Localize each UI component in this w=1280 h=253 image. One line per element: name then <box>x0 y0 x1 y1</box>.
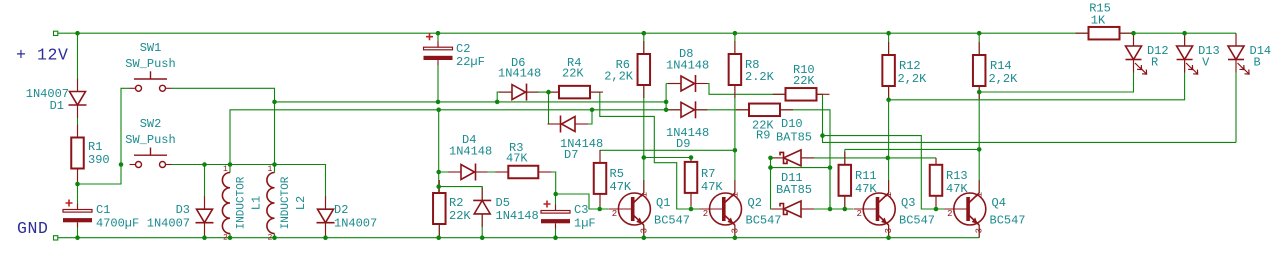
LED D13 <box>1177 33 1198 74</box>
D4 reference label <box>462 133 476 147</box>
C2 value label <box>456 55 485 69</box>
wire L1 to L2 <box>230 164 275 166</box>
D8 value label <box>666 59 709 73</box>
junction D6 R4 D7 <box>546 90 551 95</box>
wire D4 node to R2 <box>438 172 440 193</box>
D2 value label <box>334 217 377 231</box>
junction Q3 emitter GND <box>886 235 891 240</box>
Q2 pin 2 <box>703 209 708 219</box>
wire D10 anode to Q3 collector node <box>801 157 888 159</box>
+12V power label <box>16 46 69 65</box>
svg-text:1µF: 1µF <box>574 217 596 231</box>
wire D3 to L1 <box>205 164 231 166</box>
wire D8 cathode to R10 <box>696 84 786 95</box>
svg-text:4700µF: 4700µF <box>96 217 139 231</box>
wire D6 cathode to R4 <box>526 91 549 93</box>
svg-text:C3: C3 <box>574 203 588 217</box>
R13 value label <box>946 182 968 196</box>
switch SW1 <box>130 71 172 91</box>
wire D5 branch to D5 cathode <box>439 187 483 201</box>
Q4 pin 2 <box>947 209 952 219</box>
wire D13 cathode return <box>889 60 1185 100</box>
svg-text:R5: R5 <box>610 167 624 181</box>
R14 reference label <box>990 59 1012 73</box>
svg-text:SW_Push: SW_Push <box>125 57 175 71</box>
svg-text:GND: GND <box>17 219 49 238</box>
resistor R13 <box>930 158 943 209</box>
svg-text:R12: R12 <box>899 59 921 73</box>
junction R14 top rail <box>977 31 982 36</box>
transistor Q4 <box>944 180 986 238</box>
svg-text:47K: 47K <box>701 180 723 194</box>
svg-text:R1: R1 <box>88 140 102 154</box>
D8 reference label <box>679 47 693 61</box>
C1 reference label <box>96 203 110 217</box>
junction D12 anode rail <box>1131 31 1136 36</box>
wire top rail right of R15 <box>1120 32 1237 34</box>
+12V power stub square <box>54 31 58 35</box>
svg-text:2: 2 <box>223 234 228 243</box>
diode D1 <box>69 79 87 119</box>
Q1 pin 3 <box>639 228 649 233</box>
svg-text:2: 2 <box>612 209 617 219</box>
wire D7 anode to rail2 <box>577 110 593 124</box>
svg-text:R2: R2 <box>449 196 463 210</box>
svg-text:47K: 47K <box>506 152 528 166</box>
capacitor C2 <box>424 41 453 65</box>
svg-text:D10: D10 <box>781 117 803 131</box>
svg-text:1: 1 <box>268 165 273 174</box>
svg-text:1N4148: 1N4148 <box>498 67 541 81</box>
capacitor C2 plus <box>426 33 433 40</box>
junction D13 anode rail <box>1182 31 1187 36</box>
svg-text:R9: R9 <box>756 129 770 143</box>
schottky diode D11 <box>772 201 815 217</box>
Q1 value label <box>654 214 690 228</box>
capacitor C3 <box>541 205 570 229</box>
C3 value label <box>574 217 596 231</box>
junction D4 drop rail2 <box>436 108 441 113</box>
LED D13 reference label <box>1198 44 1220 58</box>
Q4 reference label <box>992 196 1006 210</box>
diode D7 <box>548 116 589 133</box>
D6 reference label <box>511 56 525 70</box>
wire D1 cathode to R1 <box>77 105 79 138</box>
transistor Q1 <box>609 180 651 238</box>
svg-text:1N4007: 1N4007 <box>147 217 190 231</box>
wire D11 anode to Q3 base <box>801 208 853 210</box>
wire R12 to Q3 collector <box>888 86 890 193</box>
junction Q3 collector node <box>886 156 891 161</box>
junction C2 rail1 <box>436 100 441 105</box>
R4 reference label <box>567 56 581 70</box>
Q3 pin 1 <box>884 192 894 197</box>
wire Q1 collector to R7 top <box>644 157 691 159</box>
diode D5 <box>473 187 491 227</box>
D1 value label <box>26 87 69 101</box>
svg-text:BAT85: BAT85 <box>776 131 812 145</box>
diode D6 <box>499 84 539 101</box>
wire R14 to Q4 collector <box>978 86 980 193</box>
svg-text:1: 1 <box>639 192 649 197</box>
svg-text:22K: 22K <box>449 209 471 223</box>
wire C3 to GND <box>555 225 557 237</box>
svg-text:R: R <box>1151 56 1158 70</box>
wire C3 top pin <box>555 194 557 210</box>
Q1 reference label <box>656 196 670 210</box>
switch SW1 value label <box>125 57 175 71</box>
junction D5 branch <box>436 184 441 189</box>
capacitor C1 plus <box>66 200 73 207</box>
D1 reference label <box>50 99 64 113</box>
svg-text:D3: D3 <box>176 203 190 217</box>
svg-text:47K: 47K <box>855 182 877 196</box>
junction D3 top <box>202 162 207 167</box>
svg-text:C2: C2 <box>456 42 470 56</box>
junction D7 rail2 <box>590 108 595 113</box>
R15 value label <box>1091 14 1106 28</box>
junction R13 Q4 base <box>934 207 939 212</box>
inductor L2 pin2 number <box>268 234 273 243</box>
svg-text:V: V <box>1202 56 1210 70</box>
wire R7 bottom pin <box>690 193 692 209</box>
R9 reference label <box>756 129 770 143</box>
resistor R12 <box>882 42 895 99</box>
D7 reference label <box>564 148 578 162</box>
junction riser rail1 <box>664 100 669 105</box>
resistor R8 <box>729 41 742 98</box>
R1 reference label <box>88 140 102 154</box>
wire top +12V rail left of R15 <box>58 32 1089 34</box>
wire D13 anode pin <box>1184 33 1186 46</box>
R6 reference label <box>616 58 630 72</box>
junction C1 GND <box>75 235 80 240</box>
junction Q1 emitter GND <box>642 235 647 240</box>
junction D4 node <box>436 170 441 175</box>
LED D12 <box>1126 33 1147 74</box>
wire D10 cathode <box>771 157 781 159</box>
transistor Q2 <box>700 180 742 238</box>
junction R2 GND <box>436 235 441 240</box>
resistor R11 <box>839 152 852 209</box>
svg-text:Q1: Q1 <box>656 196 670 210</box>
LED D14 <box>1228 33 1249 74</box>
LED D12 reference label <box>1147 44 1169 58</box>
wire R1 to node A <box>77 169 79 185</box>
D3 value label <box>147 217 190 231</box>
D9 reference label <box>676 137 690 151</box>
capacitor C1 <box>63 204 92 228</box>
junction C2 top rail <box>436 31 441 36</box>
svg-text:2: 2 <box>857 209 862 219</box>
svg-text:BAT85: BAT85 <box>776 183 812 197</box>
wire R5 bottom pin <box>599 194 601 209</box>
R7 reference label <box>701 167 715 181</box>
wire Q1 collector <box>643 158 645 194</box>
C2 reference label <box>456 42 470 56</box>
R7 value label <box>701 180 723 194</box>
wire D12 cathode return <box>979 60 1133 93</box>
D4 value label <box>449 145 492 159</box>
D6 value label <box>498 67 541 81</box>
svg-text:1N4007: 1N4007 <box>334 217 377 231</box>
wire GND rail <box>58 237 979 239</box>
svg-text:3: 3 <box>975 228 985 233</box>
wire R10 right down <box>817 94 823 135</box>
Q2 pin 1 <box>730 192 740 197</box>
wire rail1 segment b <box>438 101 666 103</box>
junction D10 cathode <box>768 156 773 161</box>
wire D3 cathode to GND <box>204 223 206 238</box>
inductor L1 pin1 number <box>223 165 228 174</box>
svg-text:1: 1 <box>884 192 894 197</box>
resistor R3 <box>495 166 551 179</box>
R8 reference label <box>745 58 759 72</box>
wire D8 anode <box>666 83 680 85</box>
wire R11 bottom pin <box>844 196 846 209</box>
resistor R9 <box>736 104 793 117</box>
wire node A up to SW1 left <box>78 88 130 184</box>
svg-text:R13: R13 <box>946 169 968 183</box>
wire D12 anode pin <box>1133 33 1135 46</box>
junction R6 top rail <box>642 31 647 36</box>
wire D1 anode <box>77 33 79 91</box>
diode D8 <box>668 75 708 92</box>
wire D9 cathode to R9 <box>696 109 749 111</box>
inductor L1 name label <box>236 176 248 229</box>
LED D13 value label <box>1202 56 1210 70</box>
svg-text:22µF: 22µF <box>456 55 485 69</box>
wire R13 bottom pin <box>935 196 937 209</box>
Q3 reference label <box>901 196 915 210</box>
wire C3 node to Q1 base <box>556 194 609 209</box>
wire R7 top pin <box>690 158 692 162</box>
svg-text:2: 2 <box>947 209 952 219</box>
D10 value label <box>776 131 812 145</box>
svg-text:Q3: Q3 <box>901 196 915 210</box>
wire R11 top pin <box>844 149 846 164</box>
wire rail1 segment a <box>275 101 439 103</box>
svg-text:SW_Push: SW_Push <box>125 133 175 147</box>
svg-text:R14: R14 <box>990 59 1012 73</box>
junction C3 top <box>553 192 558 197</box>
wire R9 right to Q3 base <box>780 110 830 209</box>
junction SW2 left <box>119 162 124 167</box>
junction L2 GND <box>272 235 277 240</box>
diode D3 <box>196 196 214 236</box>
wire D4 cathode to R3 <box>475 171 508 173</box>
svg-text:BC547: BC547 <box>654 214 690 228</box>
wire rail2 down to D4 node <box>438 110 440 172</box>
LED D14 reference label <box>1250 44 1272 58</box>
wire D8 anode riser <box>665 84 667 110</box>
R3 reference label <box>509 141 523 155</box>
svg-text:22K: 22K <box>562 67 584 81</box>
schottky diode D10 <box>772 150 815 166</box>
D7 value label <box>560 137 603 151</box>
svg-text:2,2K: 2,2K <box>989 72 1019 86</box>
D5 reference label <box>496 196 510 210</box>
svg-text:1K: 1K <box>1091 14 1106 28</box>
junction D5 GND <box>480 235 485 240</box>
Q4 pin 3 <box>975 228 985 233</box>
inductor L1 <box>222 173 230 234</box>
junction R11 Q3 base <box>843 207 848 212</box>
Q4 value label <box>990 214 1026 228</box>
GND power stub square <box>54 236 58 240</box>
svg-text:B: B <box>1254 56 1261 70</box>
D11 reference label <box>781 171 803 185</box>
junction D3 GND <box>202 235 207 240</box>
resistor R14 <box>973 42 986 99</box>
inductor L2 pin1 number <box>268 165 273 174</box>
svg-text:1: 1 <box>975 192 985 197</box>
svg-text:1: 1 <box>730 192 740 197</box>
LED D12 value label <box>1151 56 1158 70</box>
D10 reference label <box>781 117 803 131</box>
wire D7 cathode loop <box>549 92 561 124</box>
junction D13 return <box>886 98 891 103</box>
R1 value label <box>88 153 110 167</box>
wire rail2 segment b <box>439 109 666 111</box>
svg-text:2: 2 <box>268 234 273 243</box>
wire L1 pin1 <box>229 165 231 173</box>
wire R2 to GND <box>438 224 440 238</box>
svg-text:3: 3 <box>639 228 649 233</box>
wire R12 top pin <box>888 33 890 55</box>
svg-text:SW2: SW2 <box>140 117 162 131</box>
svg-text:Q2: Q2 <box>748 196 762 210</box>
wire D6 anode riser <box>497 92 512 102</box>
svg-text:D9: D9 <box>676 137 690 151</box>
R13 reference label <box>946 169 968 183</box>
junction riser rail2 D9 <box>664 108 669 113</box>
wire R5 top pin <box>599 150 601 163</box>
wire R14 top pin <box>978 33 980 55</box>
switch SW2 <box>130 148 172 168</box>
wire D11 net to Q3 base <box>771 168 831 209</box>
junction C3 GND <box>553 235 558 240</box>
inductor L1 pin2 number <box>223 234 228 243</box>
D2 reference label <box>334 203 348 217</box>
svg-text:22K: 22K <box>793 74 815 88</box>
R5 value label <box>610 180 632 194</box>
wire SW1 right to L2 top <box>172 88 275 164</box>
Q3 value label <box>899 214 935 228</box>
svg-text:Q4: Q4 <box>992 196 1006 210</box>
junction R8 top rail <box>733 31 738 36</box>
wire R6 to Q1 collector node <box>643 85 645 158</box>
R4 value label <box>562 67 584 81</box>
wire Q2 collector <box>734 150 736 193</box>
wire R5 top to Q2 collector node <box>600 149 735 151</box>
resistor R6 <box>638 41 651 98</box>
junction Q4 collector node <box>977 147 982 152</box>
wire R11 top to Q4 collector node <box>845 148 979 150</box>
wire Q2 emitter to GND <box>734 225 736 238</box>
GND power label <box>17 219 49 238</box>
svg-text:47K: 47K <box>946 182 968 196</box>
wire L2 top to D2 <box>275 165 326 210</box>
R15 reference label <box>1089 2 1111 16</box>
C1 value label <box>96 217 139 231</box>
wire R8 to node <box>734 85 736 150</box>
junction L1 top <box>228 162 233 167</box>
resistor R7 <box>685 158 698 206</box>
resistor R4 <box>546 86 603 99</box>
svg-text:R11: R11 <box>855 169 877 183</box>
transistor Q3 <box>854 180 896 238</box>
svg-text:+ 12V: + 12V <box>16 46 69 65</box>
wire C1 to GND <box>77 223 79 238</box>
svg-text:BC547: BC547 <box>899 214 935 228</box>
wire C2 minus to rail1 <box>437 62 439 102</box>
svg-text:2: 2 <box>703 209 708 219</box>
junction R7 Q2 base <box>689 207 694 212</box>
junction R9 net Q3 base <box>828 207 833 212</box>
svg-text:2.2K: 2.2K <box>745 70 775 84</box>
wire to D4 anode <box>439 171 461 173</box>
junction D12 return <box>977 90 982 95</box>
switch SW2 reference label <box>140 117 162 131</box>
diode D2 <box>317 196 335 236</box>
svg-text:D7: D7 <box>564 148 578 162</box>
wire R6 top pin <box>643 33 645 54</box>
diode D9 <box>668 101 708 118</box>
R10 reference label <box>793 63 815 77</box>
wire R3 right to C3 node <box>538 172 555 194</box>
svg-text:2,2K: 2,2K <box>604 70 634 84</box>
resistor R2 <box>433 180 446 237</box>
junction R7 top <box>689 155 694 160</box>
junction R5 Q1 base <box>597 207 602 212</box>
R11 value label <box>855 182 877 196</box>
D11 value label <box>776 183 812 197</box>
wire node A to C1 <box>77 184 79 210</box>
switch SW1 reference label <box>140 41 162 55</box>
R2 value label <box>449 209 471 223</box>
wire L1 top riser and rail2 segment a <box>230 110 439 165</box>
wire D14 return line <box>823 136 1237 143</box>
junction Q1 collector node <box>642 155 647 160</box>
junction R12 top rail <box>886 31 891 36</box>
svg-text:INDUCTOR: INDUCTOR <box>280 176 292 229</box>
wire D9 anode <box>666 109 680 111</box>
wire L2 pin2 to GND <box>274 234 276 238</box>
svg-text:D2: D2 <box>334 203 348 217</box>
resistor R10 <box>773 88 830 101</box>
D3 reference label <box>176 203 190 217</box>
R11 reference label <box>855 169 877 183</box>
wire R13 top pin <box>935 158 937 165</box>
wire R8 top pin <box>734 33 736 54</box>
resistor R5 <box>594 150 607 207</box>
junction R10 node <box>820 133 825 138</box>
svg-text:D1: D1 <box>50 99 64 113</box>
junction +12V at D1 <box>75 31 80 36</box>
svg-text:1N4148: 1N4148 <box>449 145 492 159</box>
wire L1 pin2 to GND <box>229 234 231 238</box>
capacitor C3 plus <box>544 201 551 208</box>
wire D2 cathode to GND <box>325 223 327 238</box>
junction D11 cathode <box>768 165 773 170</box>
junction Q2 emitter GND <box>733 235 738 240</box>
svg-text:390: 390 <box>88 153 110 167</box>
svg-text:2,2K: 2,2K <box>898 72 928 86</box>
Q4 pin 1 <box>975 192 985 197</box>
wire C2 plus pin <box>437 33 439 47</box>
svg-text:1N4148: 1N4148 <box>666 59 709 73</box>
